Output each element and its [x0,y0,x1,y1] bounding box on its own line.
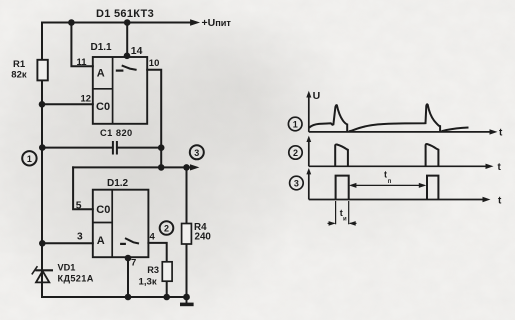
svg-text:A: A [97,68,105,80]
svg-text:КД521А: КД521А [58,274,94,284]
junction pin14 top [124,19,131,26]
capacitor C1 [113,141,117,155]
wire node3 arrow line [73,166,193,168]
svg-text:14: 14 [131,46,143,57]
svg-text:C1 820: C1 820 [100,128,133,138]
arrowhead axis row 3 top [306,168,311,174]
svg-text:1: 1 [27,154,32,164]
node 1 [22,151,36,165]
svg-text:1,3к: 1,3к [139,277,157,288]
junction C1 wire / left rail [39,144,46,151]
arrowhead U axis top [306,91,311,98]
svg-text:U: U [313,90,321,102]
svg-text:+Uпит: +Uпит [202,17,232,29]
node 3 [190,145,204,159]
wire C1 right [118,147,161,149]
svg-text:240: 240 [195,232,212,243]
arrow +Uпит [190,19,200,26]
analog switch contact (inside D1.1) [116,65,137,70]
svg-text:C0: C0 [96,101,110,113]
svg-text:t: t [384,170,387,180]
svg-text:10: 10 [149,58,160,69]
wire left rail upper [41,23,43,61]
arrow to node 3 [190,164,199,170]
svg-text:11: 11 [77,57,88,68]
arrowhead t axis row 3 [483,197,491,202]
svg-text:4: 4 [150,231,156,242]
diode VD1 [32,266,53,282]
waveform 3 pulse 2 [427,176,438,200]
waveform 2 pulse 2 [426,144,439,166]
svg-text:3: 3 [77,232,83,243]
ground [180,297,194,304]
wire pin5 branch [73,167,93,209]
svg-text:D1 561КТ3: D1 561КТ3 [96,8,154,20]
wire pin3 [42,242,93,244]
wire pin7 [127,257,129,297]
junction pin12 / left rail [39,101,46,108]
junction pin7 at box [125,255,132,262]
axis row 2 [309,139,489,166]
junction R4 / node3 wire [183,164,190,171]
wire left rail lower [41,80,43,297]
wire R3 to ground rail [166,281,168,297]
wire pin4 to R3 [148,243,166,262]
wire pin14 branch [126,23,128,57]
node ref 2 (plot) [289,146,302,159]
svg-text:VD1: VD1 [58,262,76,272]
arrowhead axis row 2 top [306,136,311,142]
svg-text:R1: R1 [13,59,26,70]
svg-text:D1.1: D1.1 [91,42,113,53]
dimension arrow tп between pulses [349,170,426,188]
svg-text:3: 3 [294,179,299,189]
svg-text:D1.2: D1.2 [107,178,129,189]
waveform 2 pulse 1 [335,144,348,166]
waveform 1 [309,104,469,131]
node ref 1 (plot) [288,117,302,131]
IC D1.2 box [93,190,149,258]
svg-text:2: 2 [164,224,169,234]
svg-text:1: 1 [293,120,298,130]
svg-text:п: п [388,179,392,185]
wire pin10 [147,70,161,168]
wire C1 left [42,147,112,149]
resistor R1 [37,60,47,81]
node 2 [160,221,174,235]
junction pin10 / C1 wire [158,144,165,151]
junction pin3 / left rail [39,240,46,247]
svg-text:и: и [343,216,347,222]
dimension tи under pulse 1 [328,201,357,226]
waveform 3 pulse 1 [336,176,349,200]
junction pin14 at box [124,53,131,60]
junction R4 / ground rail [183,294,190,301]
svg-text:C0: C0 [96,204,110,216]
scan shading [0,0,313,320]
svg-text:2: 2 [293,148,298,158]
svg-text:3: 3 [194,148,199,158]
arrowhead t axis row 2 [486,164,494,169]
svg-text:82к: 82к [11,70,27,81]
resistor R4 [182,224,192,245]
axis row 3 [309,172,486,200]
svg-text:5: 5 [76,200,82,211]
junction top-left [68,19,75,26]
svg-text:A: A [97,235,105,247]
svg-text:R3: R3 [147,265,159,275]
wire R4 top [186,167,188,223]
wire pin11 branch [71,23,92,67]
analog switch contact (inside D1.2) [120,238,139,244]
IC D1.1 box [93,57,147,124]
node ref 3 (plot) [290,176,304,190]
svg-text:7: 7 [131,257,136,268]
junction R3 / ground rail [163,294,170,301]
wire bottom ground rail [42,296,187,298]
wire +U supply rail top [42,22,192,24]
wire pin12 [42,103,93,105]
svg-text:12: 12 [81,94,92,105]
resistor R3 [162,262,172,281]
arrowhead t axis row 1 [490,129,498,134]
wire R4 bottom [186,244,188,297]
junction pin10 / node3 wire [158,164,165,171]
axis U (row 1) [309,95,493,132]
junction pin7 / ground rail [125,294,132,301]
